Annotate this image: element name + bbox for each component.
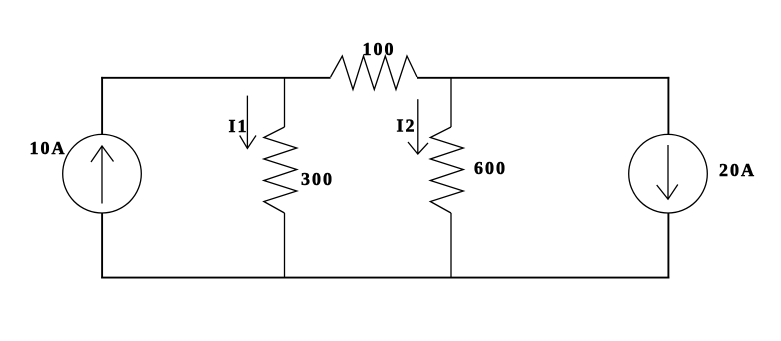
resistor R=600 (vertical zigzag) <box>430 127 463 213</box>
wire below 600 <box>450 213 452 278</box>
arrow down inside right source <box>667 145 669 199</box>
wire bottom <box>101 277 669 279</box>
svg-text:10A: 10A <box>30 138 67 158</box>
svg-text:600: 600 <box>474 158 507 178</box>
wire top right (resistor to right rail) <box>417 77 669 79</box>
wire below 300 <box>284 213 286 278</box>
wire right rail upper <box>667 77 669 135</box>
svg-text:300: 300 <box>301 169 334 189</box>
current source I=20A (right) <box>629 134 708 213</box>
resistor R=300 (vertical zigzag) <box>264 127 297 213</box>
wire right rail lower <box>667 213 669 279</box>
wire left rail upper <box>101 77 103 134</box>
svg-text:100: 100 <box>363 39 396 59</box>
resistor R=100 (top, horizontal zigzag) <box>331 56 417 90</box>
wire top left (node1 to node A) <box>101 77 330 79</box>
current source I=10A (left) <box>63 134 142 213</box>
svg-text:20A: 20A <box>719 160 756 180</box>
current arrow I1 <box>246 96 248 149</box>
wire node A down <box>284 77 286 127</box>
arrow up inside left source <box>101 146 103 204</box>
wire left rail lower <box>101 213 103 279</box>
svg-text:I2: I2 <box>397 116 417 136</box>
current arrow I2 <box>417 99 419 154</box>
svg-text:I1: I1 <box>229 116 249 136</box>
wire node B down <box>450 77 452 127</box>
